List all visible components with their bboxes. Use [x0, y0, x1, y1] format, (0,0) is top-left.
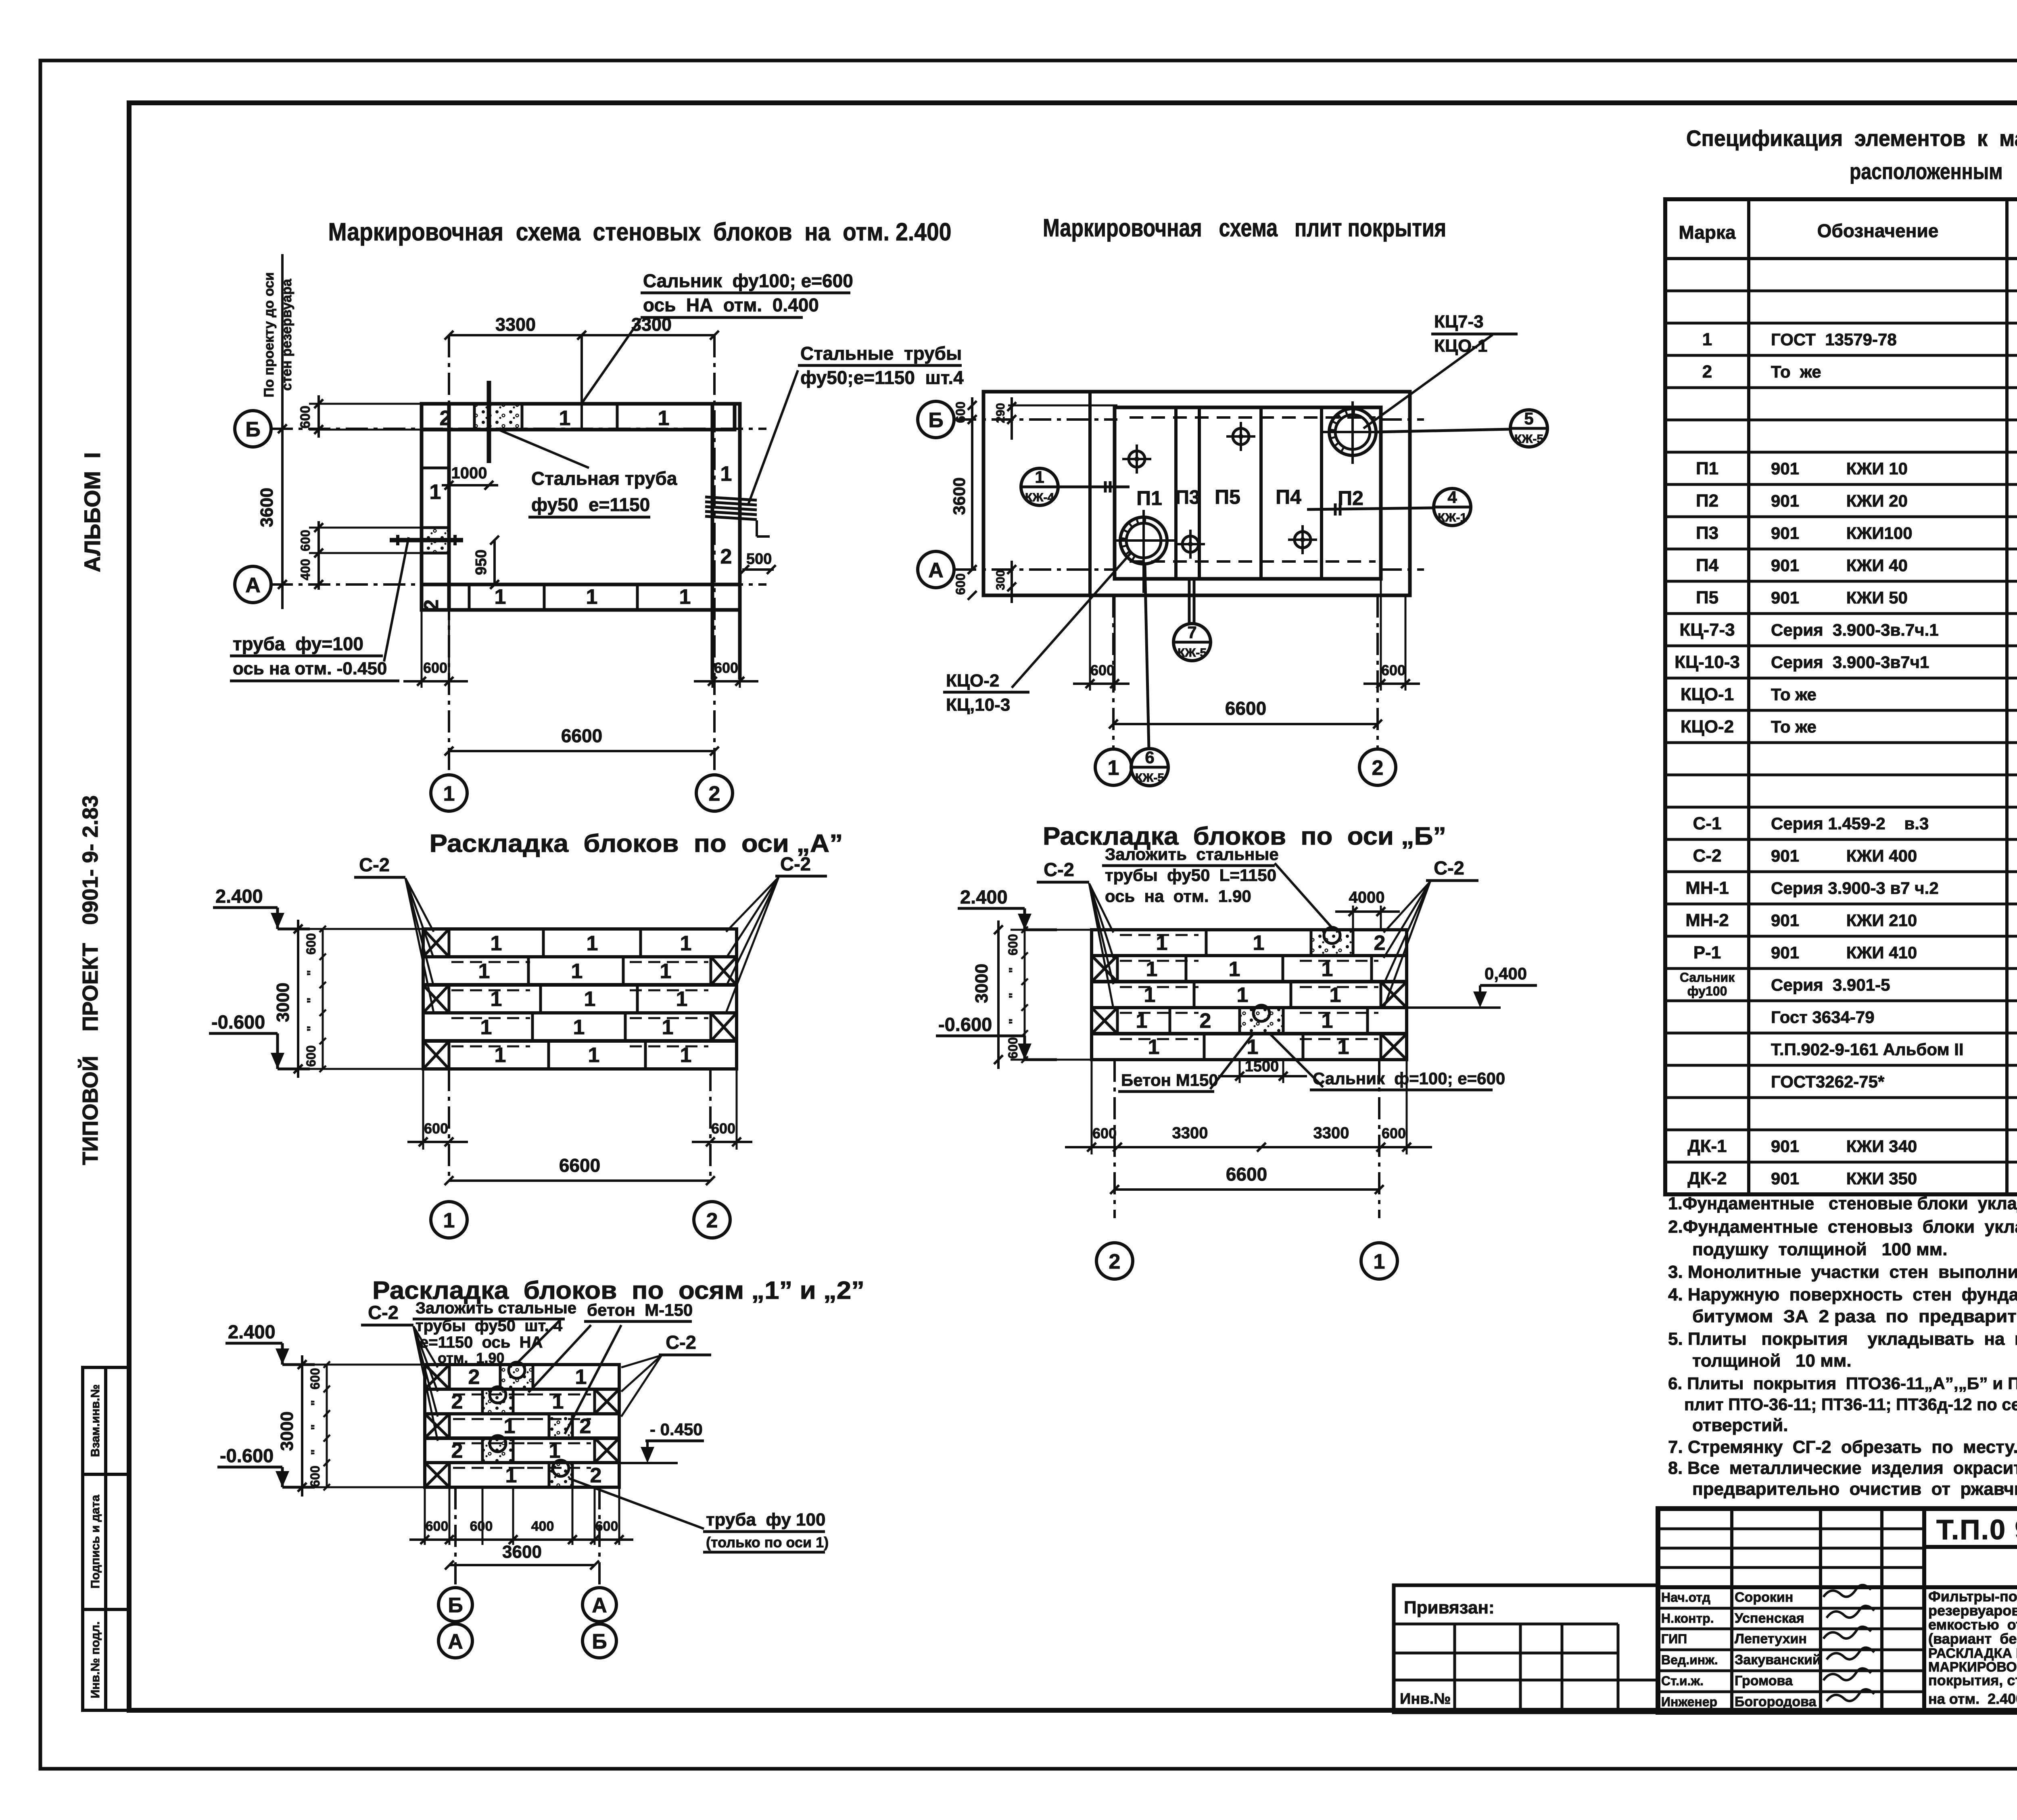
- svg-text:КЦО-2: КЦО-2: [946, 671, 999, 691]
- svg-text:РАСКЛАДКА БЛОКОВ ПО ОСЯМ А,Б,1: РАСКЛАДКА БЛОКОВ ПО ОСЯМ А,Б,1,2.: [1928, 1646, 2017, 1661]
- svg-text:отверстий.: отверстий.: [1692, 1415, 1788, 1435]
- svg-text:6: 6: [1145, 748, 1154, 767]
- svg-text:покрытия, стеновых блоков: покрытия, стеновых блоков: [1928, 1672, 2017, 1689]
- svg-text:": ": [309, 1400, 322, 1406]
- section 1-2 dim 3600: [449, 1564, 595, 1566]
- section B dim 3000 vertical: [1011, 929, 1092, 931]
- section 1-2 axis circles B/A left: [438, 1588, 472, 1622]
- svg-text:Подпись и дата: Подпись и дата: [89, 1494, 102, 1588]
- svg-text:6600: 6600: [1226, 1164, 1267, 1185]
- block row 3: [1092, 982, 1407, 1008]
- plan1 left wall joints and block labels: [422, 467, 449, 470]
- svg-text:1: 1: [443, 782, 455, 806]
- plan2 manhole ring KTsO-2 lower left: [1120, 517, 1167, 564]
- svg-text:Сальник ф=100; е=600: Сальник ф=100; е=600: [1313, 1069, 1505, 1088]
- svg-text:ГОСТ3262-75*: ГОСТ3262-75*: [1771, 1072, 1885, 1091]
- svg-text:1: 1: [587, 932, 598, 955]
- svg-text:Т.П.902-9-161 Альбом II: Т.П.902-9-161 Альбом II: [1771, 1040, 1964, 1059]
- svg-text:плит ПТО-36-11; ПТ36-11; ПТ36д: плит ПТО-36-11; ПТ36-11; ПТ36д-12 по сер…: [1684, 1395, 2017, 1414]
- svg-text:Привязан:: Привязан:: [1404, 1598, 1495, 1618]
- svg-text:КЦ-10-3: КЦ-10-3: [1675, 652, 1740, 672]
- svg-text:8. Все металлические изделия: 8. Все металлические изделия окрасить ма…: [1668, 1458, 2017, 1478]
- block row 5: [1092, 1034, 1407, 1060]
- svg-text:То же: То же: [1771, 362, 1821, 381]
- svg-text:Б: Б: [448, 1594, 463, 1617]
- plan1 left wall: [422, 404, 449, 610]
- svg-text:П4: П4: [1696, 555, 1719, 575]
- svg-text:1: 1: [662, 1016, 674, 1039]
- svg-text:С-2: С-2: [1044, 859, 1074, 880]
- svg-text:2: 2: [590, 1464, 602, 1487]
- svg-text:1: 1: [480, 1016, 492, 1039]
- plan1 axis A circle: [235, 566, 271, 603]
- svg-text:901 КЖИ 40: 901 КЖИ 40: [1771, 556, 1908, 575]
- svg-text:Громова: Громова: [1735, 1673, 1793, 1689]
- svg-text:Вед.инж.: Вед.инж.: [1661, 1653, 1718, 1667]
- svg-text:Серия 3.901-5: Серия 3.901-5: [1771, 975, 1890, 994]
- svg-text:Богородова: Богородова: [1735, 1694, 1817, 1709]
- plan1 axis B line: [271, 428, 766, 430]
- plan2 left bottom small dims: [968, 565, 977, 574]
- svg-text:фу50 е=1150: фу50 е=1150: [531, 494, 650, 515]
- svg-text:П3: П3: [1696, 523, 1718, 543]
- section B row 600 dims: [1024, 930, 1026, 1060]
- svg-text:2: 2: [468, 1365, 480, 1389]
- block row 3: [425, 1414, 619, 1438]
- svg-text:-0.600: -0.600: [938, 1014, 992, 1035]
- plan1 salnik block in left wall: [422, 528, 449, 553]
- plan1 dim 1000: [442, 484, 498, 486]
- svg-text:КЦО-1: КЦО-1: [1434, 336, 1487, 356]
- plan1 right wall: [712, 404, 740, 610]
- section B axis stems: [1113, 1060, 1116, 1218]
- svg-text:А: А: [245, 574, 261, 597]
- svg-text:1: 1: [559, 407, 571, 430]
- svg-text:КЖ-5: КЖ-5: [1135, 771, 1164, 785]
- svg-text:Бетон М150: Бетон М150: [1121, 1071, 1218, 1089]
- svg-text:7. Стремянку СГ-2 обрезать: 7. Стремянку СГ-2 обрезать по месту.: [1668, 1437, 2017, 1457]
- svg-text:А: А: [448, 1630, 463, 1653]
- svg-text:1: 1: [660, 960, 672, 983]
- section 1-2 bottom dims: [424, 1487, 426, 1545]
- svg-text:2.400: 2.400: [960, 886, 1008, 908]
- svg-text:П2: П2: [1696, 491, 1718, 511]
- svg-text:(вариант без клапанов).: (вариант без клапанов).: [1928, 1630, 2017, 1647]
- section 1-2 axis circles A/B right: [583, 1588, 616, 1622]
- section B dim 1500: [1239, 1060, 1241, 1083]
- svg-text:То же: То же: [1771, 717, 1817, 736]
- svg-text:1: 1: [575, 1365, 587, 1389]
- plan2 marker 5/KZh-5: [1510, 410, 1547, 447]
- svg-text:2.Фундаментные стеновыз блок: 2.Фундаментные стеновыз блоки укладывать…: [1668, 1217, 2017, 1237]
- plan1 wall thickness dims 600 bottom: [421, 610, 423, 688]
- svg-text:бетон М-150: бетон М-150: [587, 1300, 693, 1319]
- svg-text:П5: П5: [1215, 486, 1240, 508]
- svg-text:6600: 6600: [559, 1155, 600, 1176]
- svg-text:600: 600: [953, 401, 968, 423]
- svg-text:1.Фундаментные стеновые блок: 1.Фундаментные стеновые блоки укладывать…: [1668, 1194, 2017, 1213]
- block row 2: [425, 1389, 619, 1414]
- svg-text:4: 4: [1447, 488, 1457, 507]
- svg-text:7: 7: [1187, 623, 1196, 642]
- svg-text:1500: 1500: [1245, 1058, 1279, 1075]
- svg-text:ГИП: ГИП: [1661, 1632, 1687, 1646]
- svg-text:600: 600: [1382, 1125, 1406, 1142]
- svg-text:": ": [1007, 993, 1020, 998]
- plan1 axis 2 line: [713, 335, 716, 775]
- svg-text:Взам.инв.№: Взам.инв.№: [89, 1384, 102, 1457]
- svg-text:ДК-2: ДК-2: [1687, 1169, 1727, 1188]
- svg-text:Сорокин: Сорокин: [1735, 1590, 1793, 1605]
- section B axis circle 1: [1361, 1243, 1397, 1279]
- section B bottom dims 600/3300/3300/600: [1065, 1146, 1432, 1148]
- svg-text:600: 600: [953, 573, 968, 595]
- svg-text:400: 400: [531, 1519, 554, 1534]
- svg-text:КЦО-1: КЦО-1: [1681, 685, 1734, 704]
- svg-text:1: 1: [571, 960, 583, 983]
- block row 2: [423, 957, 737, 985]
- svg-text:Заложить стальные: Заложить стальные: [1105, 845, 1279, 864]
- svg-text:С-2: С-2: [666, 1332, 696, 1353]
- svg-text:901 КЖИ 20: 901 КЖИ 20: [1771, 491, 1908, 510]
- svg-text:901 КЖИ 350: 901 КЖИ 350: [1771, 1169, 1917, 1188]
- plan1 dim 950: [493, 540, 496, 584]
- plan2 axis B circle: [918, 401, 954, 438]
- svg-text:труба фу 100: труба фу 100: [706, 1510, 825, 1530]
- plan2 dim 6600: [1113, 723, 1378, 725]
- plan1 top wall: [422, 404, 735, 430]
- svg-text:2: 2: [706, 1209, 718, 1232]
- title block horizontals: [1924, 1545, 2017, 1549]
- plan1 dim 6600 bottom: [449, 750, 714, 752]
- svg-text:1: 1: [679, 585, 691, 609]
- section 1-2 axis stems: [454, 1487, 457, 1585]
- svg-text:901 КЖИ100: 901 КЖИ100: [1771, 524, 1913, 543]
- block row 1: [1092, 930, 1407, 956]
- svg-text:П4: П4: [1276, 486, 1301, 508]
- svg-text:1: 1: [658, 407, 670, 430]
- svg-text:2: 2: [420, 599, 443, 611]
- svg-text:6600: 6600: [1225, 698, 1266, 719]
- svg-text:А: А: [928, 559, 944, 582]
- svg-text:600: 600: [1381, 662, 1405, 678]
- svg-text:ДК-1: ДК-1: [1687, 1136, 1727, 1156]
- block row 4: [423, 1013, 737, 1041]
- svg-text:П3: П3: [1175, 487, 1200, 508]
- plan1 vertical dim 3600: [281, 254, 284, 609]
- plan1 left 600/400 dims near axis A: [309, 527, 422, 529]
- plan2 marker 4/KZh-1: [1434, 488, 1471, 526]
- svg-text:1: 1: [1374, 1250, 1385, 1273]
- svg-text:С-2: С-2: [359, 854, 390, 875]
- svg-text:Заложить стальные: Заложить стальные: [416, 1299, 576, 1317]
- svg-text:на отм. 2.400 .: на отм. 2.400 .: [1928, 1691, 2017, 1707]
- plan2 outer slab outline: [983, 392, 1410, 595]
- section A axis circle 2: [694, 1202, 730, 1238]
- svg-text:П2: П2: [1338, 487, 1363, 509]
- section B dim 4000: [1352, 906, 1354, 930]
- svg-text:- 0.450: - 0.450: [650, 1420, 703, 1439]
- svg-text:4. Наружную поверхность стен: 4. Наружную поверхность стен фундаментов…: [1668, 1285, 2017, 1304]
- svg-text:1: 1: [680, 932, 692, 955]
- section A dim 6600: [449, 1179, 710, 1182]
- title block verticals: [1730, 1509, 1733, 1712]
- spec table grid: [1665, 199, 2017, 1194]
- plan2 hidden wall faces dashed: [1130, 416, 1376, 419]
- svg-text:ТИПОВОЙ ПРОЕКТ 0901- 9- 2: ТИПОВОЙ ПРОЕКТ 0901- 9- 2.83: [78, 795, 102, 1165]
- plan2 axis A circle: [918, 551, 954, 588]
- svg-text:290: 290: [994, 403, 1007, 423]
- svg-text:600: 600: [304, 1045, 318, 1067]
- svg-text:С-1: С-1: [1693, 814, 1722, 833]
- svg-text:2.400: 2.400: [215, 885, 263, 907]
- svg-text:ось на отм. 1.90: ось на отм. 1.90: [1105, 887, 1251, 906]
- plan2 left wall inner face: [1088, 392, 1092, 595]
- svg-text:300: 300: [994, 570, 1007, 590]
- svg-text:1000: 1000: [451, 464, 487, 482]
- svg-text:6600: 6600: [561, 725, 602, 746]
- svg-text:КЖ-1: КЖ-1: [1438, 511, 1467, 524]
- svg-text:П1: П1: [1696, 459, 1718, 478]
- svg-text:С-2: С-2: [368, 1302, 399, 1323]
- svg-text:КЖ-4: КЖ-4: [1025, 491, 1054, 504]
- svg-text:1: 1: [1108, 756, 1119, 780]
- plan2 plate field: [1115, 407, 1381, 579]
- svg-text:3300: 3300: [1172, 1124, 1208, 1142]
- svg-text:Инв.№: Инв.№: [1400, 1691, 1451, 1707]
- section 1-2 row 600 dims: [326, 1365, 328, 1487]
- plan2 axis 1 line: [1112, 595, 1115, 749]
- plan2 axis 2 line: [1376, 595, 1379, 749]
- svg-text:600: 600: [1092, 1125, 1117, 1142]
- plan1 axis 1 line: [448, 335, 450, 775]
- svg-text:2.400: 2.400: [228, 1321, 276, 1342]
- section A axis stems: [448, 1069, 450, 1178]
- svg-text:-0.600: -0.600: [211, 1011, 265, 1033]
- svg-text:КЦО-2: КЦО-2: [1681, 717, 1734, 737]
- svg-text:2: 2: [709, 782, 720, 806]
- svg-text:950: 950: [473, 549, 490, 575]
- svg-text:подушку толщиной 100 мм.: подушку толщиной 100 мм.: [1692, 1240, 1947, 1259]
- svg-text:Спецификация элементов к ма: Спецификация элементов к маркировочным с…: [1686, 125, 2017, 151]
- svg-text:С-2: С-2: [780, 853, 811, 875]
- svg-text:6. Плиты покрытия ПТО36-11„А: 6. Плиты покрытия ПТО36-11„А”,„Б” и ПТ36…: [1668, 1374, 2017, 1393]
- svg-text:2: 2: [1702, 362, 1712, 382]
- plan1 axis 2 circle: [696, 775, 733, 811]
- svg-text:По проекту до оси: По проекту до оси: [261, 272, 277, 397]
- svg-text:Гост 3634-79: Гост 3634-79: [1771, 1008, 1875, 1027]
- svg-text:предварительно очистив от р: предварительно очистив от ржавчины и гря…: [1692, 1479, 2017, 1499]
- svg-text:Нач.отд: Нач.отд: [1661, 1590, 1710, 1605]
- plan1 right wall extension below: [711, 610, 714, 680]
- svg-text:Марка: Марка: [1679, 222, 1736, 243]
- svg-text:Маркировочная схема стеновых: Маркировочная схема стеновых блоков на о…: [328, 218, 952, 246]
- svg-text:Б: Б: [592, 1630, 607, 1653]
- svg-text:1: 1: [1702, 330, 1712, 349]
- block row 3: [423, 985, 737, 1013]
- plan1 steel pipes hatch on right wall: [705, 497, 757, 500]
- svg-text:901 КЖИ 340: 901 КЖИ 340: [1771, 1137, 1917, 1156]
- plan1 bottom wall: [422, 584, 740, 610]
- svg-text:отм. 1.90: отм. 1.90: [438, 1350, 504, 1366]
- plan2 marker 7/KZh-5: [1173, 624, 1211, 661]
- svg-text:901 КЖИ 400: 901 КЖИ 400: [1771, 846, 1917, 865]
- svg-text:2: 2: [720, 545, 732, 568]
- svg-text:5: 5: [1524, 409, 1533, 428]
- svg-text:": ": [305, 970, 318, 976]
- margin stamp table: [83, 1367, 129, 1710]
- svg-text:А: А: [592, 1594, 607, 1617]
- svg-text:5. Плиты покрытия укладыв: 5. Плиты покрытия укладывать на цементны…: [1668, 1329, 2017, 1349]
- svg-text:0,400: 0,400: [1485, 964, 1527, 983]
- svg-text:2: 2: [1372, 756, 1384, 780]
- plan1 axis 1 circle: [431, 775, 467, 811]
- svg-text:Б: Б: [928, 409, 943, 432]
- svg-text:-0.600: -0.600: [220, 1445, 274, 1466]
- svg-text:Серия 1.459-2 в.3: Серия 1.459-2 в.3: [1771, 814, 1929, 833]
- section B axis circle 2: [1096, 1243, 1133, 1279]
- svg-text:600: 600: [424, 1120, 448, 1137]
- svg-text:Успенская: Успенская: [1735, 1611, 1804, 1626]
- svg-text:600: 600: [298, 406, 313, 429]
- svg-text:": ": [305, 998, 318, 1003]
- svg-text:1: 1: [478, 960, 490, 983]
- svg-text:3300: 3300: [1313, 1124, 1349, 1142]
- svg-text:3000: 3000: [972, 964, 992, 1003]
- svg-text:П1: П1: [1136, 487, 1162, 509]
- svg-text:1: 1: [1229, 958, 1240, 981]
- svg-text:КЦ,10-3: КЦ,10-3: [946, 695, 1010, 715]
- svg-text:3600: 3600: [950, 477, 969, 515]
- svg-text:": ": [309, 1449, 322, 1455]
- svg-text:600: 600: [298, 530, 313, 551]
- section B dim 6600: [1115, 1188, 1379, 1191]
- svg-text:1: 1: [495, 585, 506, 609]
- svg-text:1: 1: [1237, 983, 1249, 1007]
- svg-text:Инв.№ подл.: Инв.№ подл.: [89, 1622, 102, 1699]
- svg-text:": ": [1007, 1019, 1020, 1024]
- svg-text:МН-1: МН-1: [1685, 878, 1729, 898]
- svg-text:ось НА отм. 0.400: ось НА отм. 0.400: [643, 294, 819, 315]
- svg-text:Ст.и.ж.: Ст.и.ж.: [1661, 1674, 1704, 1688]
- svg-text:600: 600: [470, 1519, 493, 1534]
- plan1 monolithic block in top wall: [474, 404, 522, 430]
- plan1 steel pipe through top wall: [487, 381, 491, 463]
- svg-text:600: 600: [714, 660, 738, 676]
- svg-text:600: 600: [423, 660, 447, 676]
- svg-text:Закуванский: Закуванский: [1735, 1652, 1821, 1668]
- svg-text:1: 1: [720, 462, 732, 486]
- plan2 axis 1 circle: [1095, 749, 1132, 785]
- svg-text:КЦ7-3: КЦ7-3: [1434, 312, 1484, 332]
- svg-text:901 КЖИ 50: 901 КЖИ 50: [1771, 588, 1908, 607]
- plan2 marker 6/KZh-5: [1131, 749, 1168, 786]
- svg-text:трубы фу50 шт. 4: трубы фу50 шт. 4: [416, 1317, 563, 1335]
- section A dim 3000 vertical: [282, 928, 423, 930]
- plan2 marker 1/KZh-4: [1021, 468, 1058, 505]
- svg-text:АЛЬБОМ I: АЛЬБОМ I: [79, 452, 105, 572]
- block row 5: [423, 1041, 737, 1069]
- block row 1: [425, 1365, 619, 1389]
- svg-text:С-2: С-2: [1434, 857, 1464, 879]
- svg-text:Б: Б: [245, 418, 260, 441]
- svg-text:1: 1: [491, 932, 502, 955]
- svg-text:1: 1: [586, 585, 598, 609]
- svg-text:толщиной 10 мм.: толщиной 10 мм.: [1692, 1351, 1852, 1371]
- svg-text:КЖ-5: КЖ-5: [1178, 646, 1207, 660]
- svg-text:Обозначение: Обозначение: [1817, 220, 1939, 241]
- svg-text:битумом ЗА 2 раза по предв: битумом ЗА 2 раза по предварительной огр…: [1692, 1307, 2017, 1326]
- plan2 dim 3600 vertical: [971, 420, 973, 570]
- svg-text:1: 1: [1253, 931, 1265, 955]
- svg-text:600: 600: [426, 1519, 449, 1534]
- svg-text:ГОСТ 13579-78: ГОСТ 13579-78: [1771, 330, 1897, 349]
- svg-text:1: 1: [573, 1016, 585, 1039]
- plan1 bottom wall joints: [468, 584, 471, 610]
- svg-text:500: 500: [746, 551, 772, 568]
- plan2 axis B line: [954, 418, 1117, 421]
- svg-text:3600: 3600: [502, 1542, 542, 1562]
- section 1-2 dim 3000 vertical: [287, 1364, 425, 1366]
- svg-text:600: 600: [304, 933, 318, 954]
- svg-text:фу100: фу100: [1687, 984, 1727, 998]
- privyazan block: [1394, 1585, 1658, 1712]
- svg-text:Стальные трубы: Стальные трубы: [800, 343, 962, 364]
- svg-text:": ": [1007, 967, 1020, 973]
- plan1 axis A line: [271, 583, 766, 586]
- block row 1: [423, 929, 737, 957]
- svg-text:труба фу=100: труба фу=100: [233, 633, 363, 654]
- svg-text:КЖ-5: КЖ-5: [1514, 432, 1543, 446]
- svg-text:Н.контр.: Н.контр.: [1661, 1611, 1714, 1626]
- svg-text:600: 600: [711, 1120, 735, 1137]
- svg-text:Серия 3.900-3в7ч1: Серия 3.900-3в7ч1: [1771, 653, 1929, 672]
- svg-text:Лепетухин: Лепетухин: [1735, 1631, 1807, 1647]
- plan1 top dimension 3300+3300: [449, 334, 714, 336]
- svg-text:2: 2: [1374, 931, 1386, 955]
- svg-text:Инженер: Инженер: [1661, 1695, 1717, 1709]
- svg-text:Стальная труба: Стальная труба: [531, 468, 677, 489]
- svg-text:600: 600: [308, 1465, 322, 1487]
- svg-text:1: 1: [584, 987, 596, 1011]
- plan2 600 dims bottom: [1089, 595, 1091, 691]
- block row 4: [425, 1438, 619, 1463]
- svg-text:Т.П.0 901 - 9 - 2.83: Т.П.0 901 - 9 - 2.83: [1936, 1514, 2017, 1545]
- svg-text:600: 600: [1006, 1037, 1020, 1058]
- svg-text:П5: П5: [1696, 588, 1718, 607]
- svg-text:1: 1: [588, 1044, 600, 1067]
- svg-text:": ": [305, 1026, 318, 1031]
- svg-text:2: 2: [1200, 1009, 1211, 1033]
- svg-text:3000: 3000: [277, 1411, 297, 1451]
- svg-text:600: 600: [1006, 934, 1020, 955]
- plan2 axis 2 circle: [1359, 749, 1396, 785]
- svg-text:": ": [309, 1424, 322, 1430]
- plan1 top wall block joints: [473, 404, 476, 430]
- plan2 left small dims: [971, 397, 973, 440]
- plan1 axis B circle: [235, 411, 271, 447]
- title block outer: [1658, 1509, 2017, 1712]
- svg-text:3600: 3600: [257, 488, 277, 527]
- block row 4: [1092, 1008, 1407, 1033]
- svg-text:е=1150 ось НА: е=1150 ось НА: [420, 1334, 543, 1351]
- svg-text:1: 1: [430, 480, 441, 504]
- svg-text:400: 400: [298, 559, 313, 580]
- plan2 crosshair targets: [1129, 451, 1145, 467]
- svg-text:2: 2: [1109, 1250, 1121, 1273]
- section A axis circle 1: [431, 1202, 467, 1238]
- svg-text:Сальник фу100; е=600: Сальник фу100; е=600: [643, 270, 853, 291]
